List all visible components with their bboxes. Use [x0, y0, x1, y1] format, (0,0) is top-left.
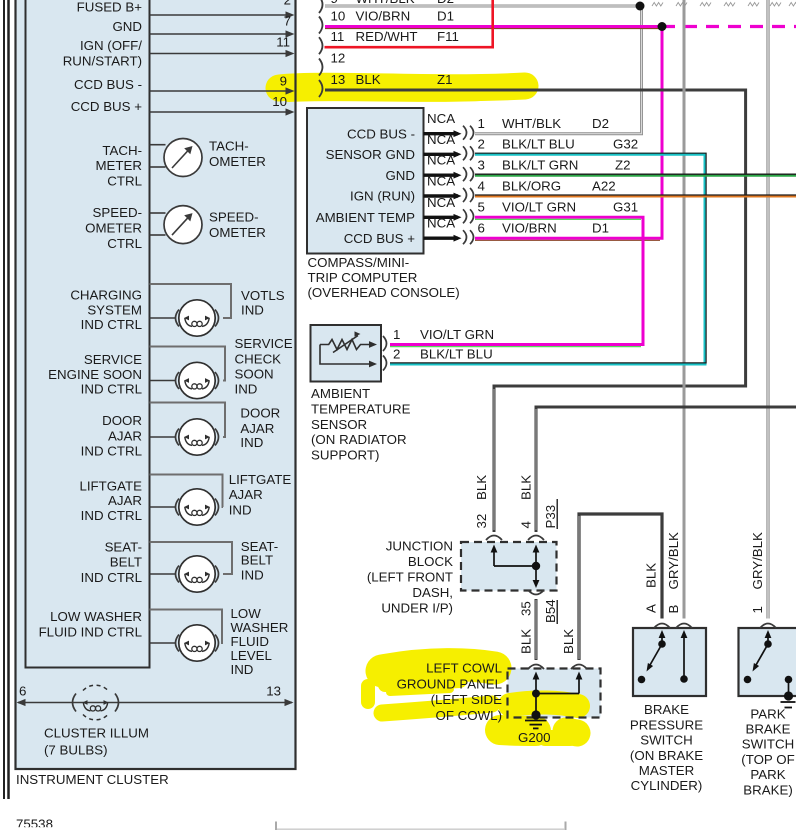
svg-text:2: 2	[478, 137, 485, 152]
svg-text:CTRL: CTRL	[107, 174, 142, 189]
svg-text:WASHER: WASHER	[231, 620, 289, 635]
svg-text:NCA: NCA	[427, 111, 455, 126]
svg-text:Z1: Z1	[437, 72, 453, 87]
svg-text:CCD BUS -: CCD BUS -	[74, 77, 142, 92]
svg-text:3: 3	[478, 158, 485, 173]
svg-text:VIO/BRN: VIO/BRN	[356, 8, 411, 23]
svg-text:(OVERHEAD CONSOLE): (OVERHEAD CONSOLE)	[308, 285, 460, 300]
svg-text:IND CTRL: IND CTRL	[81, 570, 142, 585]
svg-text:BLK/LT BLU: BLK/LT BLU	[502, 137, 575, 152]
svg-text:AMBIENT: AMBIENT	[311, 386, 370, 401]
svg-text:LEVEL: LEVEL	[231, 648, 272, 663]
svg-text:UNDER I/P): UNDER I/P)	[381, 601, 453, 616]
svg-text:CCD BUS +: CCD BUS +	[71, 99, 143, 114]
svg-text:LEFT COWL: LEFT COWL	[426, 661, 502, 676]
svg-text:SOON: SOON	[235, 367, 274, 382]
svg-text:LIFTGATE: LIFTGATE	[79, 479, 142, 494]
svg-text:IGN (RUN): IGN (RUN)	[350, 189, 415, 204]
svg-text:BELT: BELT	[241, 552, 273, 567]
svg-text:RED/WHT: RED/WHT	[356, 29, 418, 44]
svg-text:9: 9	[331, 0, 338, 6]
svg-text:SWITCH: SWITCH	[742, 737, 794, 752]
svg-text:CHECK: CHECK	[235, 351, 282, 366]
svg-text:NCA: NCA	[427, 174, 455, 189]
svg-text:AJAR: AJAR	[229, 487, 263, 502]
svg-text:G32: G32	[613, 137, 638, 152]
svg-text:SENSOR GND: SENSOR GND	[326, 147, 415, 162]
svg-text:DOOR: DOOR	[102, 413, 142, 428]
svg-text:NCA: NCA	[427, 216, 455, 231]
svg-text:10: 10	[331, 8, 346, 23]
svg-text:PRESSURE: PRESSURE	[630, 717, 703, 732]
svg-text:OMETER: OMETER	[209, 154, 266, 169]
svg-text:BLK/LT BLU: BLK/LT BLU	[420, 347, 493, 362]
svg-text:NCA: NCA	[427, 195, 455, 210]
svg-text:BRAKE: BRAKE	[745, 722, 790, 737]
svg-text:OF COWL): OF COWL)	[436, 708, 502, 723]
svg-text:IND CTRL: IND CTRL	[81, 317, 142, 332]
svg-text:P33: P33	[543, 505, 558, 529]
svg-text:VIO/LT GRN: VIO/LT GRN	[502, 200, 576, 215]
svg-text:AJAR: AJAR	[108, 493, 142, 508]
svg-text:MASTER: MASTER	[639, 763, 694, 778]
svg-text:VIO/LT GRN: VIO/LT GRN	[420, 327, 494, 342]
svg-text:(7 BULBS): (7 BULBS)	[44, 743, 108, 758]
svg-text:6: 6	[478, 221, 485, 236]
svg-text:D2: D2	[437, 0, 454, 6]
svg-text:(LEFT SIDE: (LEFT SIDE	[431, 692, 503, 707]
svg-text:LIFTGATE: LIFTGATE	[229, 472, 292, 487]
svg-text:AMBIENT TEMP: AMBIENT TEMP	[316, 210, 415, 225]
svg-text:AJAR: AJAR	[240, 421, 274, 436]
svg-text:BLK: BLK	[519, 629, 534, 654]
svg-text:(ON RADIATOR: (ON RADIATOR	[311, 432, 407, 447]
svg-text:PARK: PARK	[750, 706, 785, 721]
svg-text:INSTRUMENT CLUSTER: INSTRUMENT CLUSTER	[16, 772, 169, 787]
svg-text:ENGINE SOON: ENGINE SOON	[48, 367, 142, 382]
svg-text:IND CTRL: IND CTRL	[81, 382, 142, 397]
svg-text:OMETER: OMETER	[85, 221, 142, 236]
svg-text:D1: D1	[592, 221, 609, 236]
svg-text:VOTLS: VOTLS	[241, 288, 285, 303]
svg-text:TACH-: TACH-	[102, 143, 142, 158]
svg-text:2: 2	[393, 347, 400, 362]
svg-text:IND: IND	[241, 303, 264, 318]
svg-text:TRIP COMPUTER: TRIP COMPUTER	[308, 270, 418, 285]
svg-text:13: 13	[266, 684, 281, 699]
svg-text:NCA: NCA	[427, 153, 455, 168]
svg-text:D1: D1	[437, 8, 454, 23]
svg-text:4: 4	[478, 178, 485, 193]
svg-text:SPEED-: SPEED-	[92, 205, 142, 220]
svg-text:9: 9	[280, 74, 287, 89]
svg-text:IND: IND	[235, 382, 258, 397]
svg-text:DOOR: DOOR	[240, 406, 280, 421]
svg-text:BLK/LT GRN: BLK/LT GRN	[502, 158, 578, 173]
svg-text:CHARGING: CHARGING	[70, 288, 142, 303]
svg-text:(ON BRAKE: (ON BRAKE	[630, 748, 703, 763]
svg-text:GND: GND	[385, 168, 415, 183]
svg-text:VIO/BRN: VIO/BRN	[502, 221, 557, 236]
svg-text:BLK: BLK	[474, 475, 489, 500]
svg-text:5: 5	[478, 200, 485, 215]
svg-text:TACH-: TACH-	[209, 139, 249, 154]
svg-text:OMETER: OMETER	[209, 225, 266, 240]
svg-text:IGN (OFF/: IGN (OFF/	[80, 38, 142, 53]
svg-text:10: 10	[272, 94, 287, 109]
svg-text:WHT/BLK: WHT/BLK	[356, 0, 415, 6]
svg-text:CCD BUS -: CCD BUS -	[347, 126, 415, 141]
svg-text:1: 1	[478, 116, 485, 131]
svg-text:GRY/BLK: GRY/BLK	[750, 532, 765, 590]
svg-text:7: 7	[284, 14, 291, 29]
svg-text:FUSED B+: FUSED B+	[77, 0, 143, 15]
svg-text:JUNCTION: JUNCTION	[386, 539, 453, 554]
svg-text:32: 32	[474, 514, 489, 529]
svg-text:CLUSTER ILLUM: CLUSTER ILLUM	[44, 726, 149, 741]
svg-text:SENSOR: SENSOR	[311, 417, 367, 432]
svg-text:GROUND PANEL: GROUND PANEL	[397, 677, 502, 692]
svg-text:2: 2	[284, 0, 291, 8]
svg-text:35: 35	[519, 601, 534, 616]
svg-text:LOW: LOW	[231, 606, 262, 621]
svg-text:12: 12	[331, 50, 346, 65]
svg-text:G31: G31	[613, 200, 638, 215]
svg-text:1: 1	[393, 327, 400, 342]
svg-text:IND: IND	[231, 662, 254, 677]
svg-text:(TOP OF: (TOP OF	[741, 752, 794, 767]
svg-text:1: 1	[750, 606, 765, 613]
svg-text:WHT/BLK: WHT/BLK	[502, 116, 561, 131]
svg-text:NCA: NCA	[427, 132, 455, 147]
svg-text:Z2: Z2	[615, 158, 631, 173]
svg-text:RUN/START): RUN/START)	[63, 54, 142, 69]
svg-text:AJAR: AJAR	[108, 429, 142, 444]
svg-text:11: 11	[331, 29, 345, 44]
svg-text:FLUID: FLUID	[231, 634, 269, 649]
svg-text:CYLINDER): CYLINDER)	[631, 778, 703, 793]
svg-text:BRAKE: BRAKE	[644, 702, 689, 717]
svg-text:COMPASS/MINI-: COMPASS/MINI-	[308, 255, 410, 270]
svg-text:SYSTEM: SYSTEM	[87, 303, 142, 318]
svg-text:SWITCH: SWITCH	[640, 733, 692, 748]
svg-text:BLOCK: BLOCK	[408, 554, 453, 569]
svg-text:BLK: BLK	[519, 475, 534, 500]
svg-text:SERVICE: SERVICE	[235, 336, 293, 351]
svg-text:SPEED-: SPEED-	[209, 210, 259, 225]
svg-text:DASH,: DASH,	[412, 585, 453, 600]
svg-text:G200: G200	[518, 730, 551, 745]
svg-text:B54: B54	[543, 599, 558, 623]
svg-text:CTRL: CTRL	[107, 236, 142, 251]
svg-text:FLUID IND CTRL: FLUID IND CTRL	[39, 625, 142, 640]
svg-text:SUPPORT): SUPPORT)	[311, 447, 379, 462]
svg-text:D2: D2	[592, 116, 609, 131]
svg-text:IND CTRL: IND CTRL	[81, 508, 142, 523]
svg-text:CCD BUS +: CCD BUS +	[344, 231, 416, 246]
svg-text:BLK: BLK	[356, 72, 381, 87]
svg-text:BELT: BELT	[110, 555, 142, 570]
svg-text:PARK: PARK	[750, 767, 785, 782]
svg-text:(LEFT FRONT: (LEFT FRONT	[367, 570, 453, 585]
svg-text:B: B	[666, 605, 681, 614]
svg-text:A: A	[644, 604, 659, 613]
svg-text:GRY/BLK: GRY/BLK	[666, 532, 681, 590]
svg-text:BLK/ORG: BLK/ORG	[502, 178, 561, 193]
svg-text:SEAT-: SEAT-	[105, 540, 142, 555]
svg-text:IND: IND	[241, 567, 264, 582]
svg-text:TEMPERATURE: TEMPERATURE	[311, 402, 411, 417]
svg-text:13: 13	[331, 72, 346, 87]
svg-text:6: 6	[19, 684, 26, 699]
svg-text:F11: F11	[437, 29, 459, 44]
svg-text:IND: IND	[229, 502, 252, 517]
svg-text:BLK: BLK	[561, 629, 576, 654]
svg-text:SERVICE: SERVICE	[84, 352, 142, 367]
svg-text:LOW WASHER: LOW WASHER	[50, 609, 142, 624]
svg-text:METER: METER	[95, 158, 142, 173]
svg-text:GND: GND	[112, 19, 142, 34]
svg-text:A22: A22	[592, 178, 616, 193]
svg-text:11: 11	[276, 35, 290, 50]
svg-text:4: 4	[519, 521, 534, 528]
svg-text:BRAKE): BRAKE)	[743, 782, 793, 797]
svg-text:IND: IND	[240, 435, 263, 450]
svg-text:BLK: BLK	[644, 563, 659, 588]
svg-text:IND CTRL: IND CTRL	[81, 444, 142, 459]
